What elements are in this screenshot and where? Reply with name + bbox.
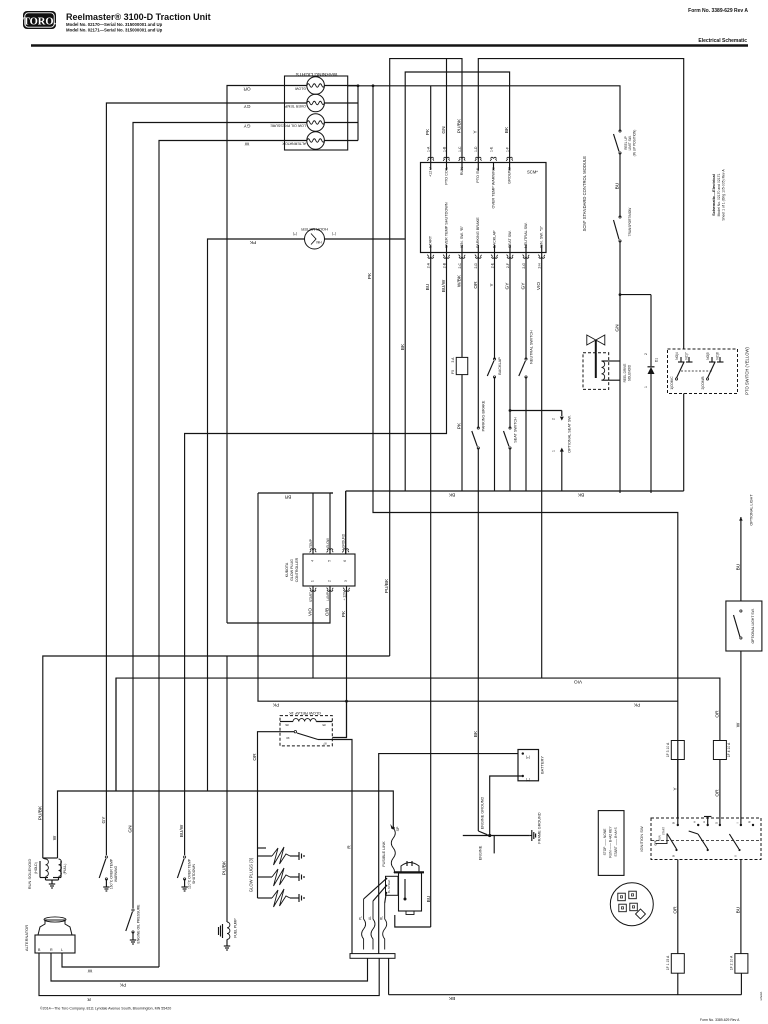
- header rule: [31, 44, 748, 47]
- wire BK bottom bus: [389, 994, 742, 996]
- svg-text:(IN UP POSITION): (IN UP POSITION): [633, 130, 637, 157]
- svg-text:GLOW PLUGS (3): GLOW PLUGS (3): [249, 857, 254, 892]
- svg-text:BATTERY: BATTERY: [540, 756, 545, 774]
- glow relay 1K: [280, 716, 332, 746]
- svg-text:87: 87: [323, 742, 327, 746]
- svg-text:PTO SWITCH (YELLOW): PTO SWITCH (YELLOW): [745, 347, 750, 395]
- svg-text:1-F: 1-F: [505, 147, 509, 152]
- svg-text:BK: BK: [448, 995, 455, 1001]
- svg-text:2: 2: [328, 580, 332, 582]
- battery: [518, 750, 539, 781]
- svg-text:Schematic—Electrical: Schematic—Electrical: [711, 174, 716, 216]
- svg-text:6: 6: [343, 560, 347, 562]
- svg-text:BU: BU: [426, 895, 432, 902]
- svg-text:GLOW: GLOW: [326, 538, 330, 548]
- svg-text:1: 1: [552, 450, 556, 452]
- wire top bus segment A y58.6: [390, 59, 462, 656]
- svg-text:(HOLD): (HOLD): [34, 862, 38, 874]
- battery junction bar: [350, 954, 395, 959]
- svg-text:OR: OR: [473, 281, 479, 289]
- svg-text:I: I: [735, 822, 739, 823]
- svg-text:86: 86: [285, 723, 289, 727]
- wire battery positive: [379, 754, 518, 954]
- svg-text:SHUTDOWN: SHUTDOWN: [192, 863, 196, 884]
- fuse 1F1 15A: [671, 954, 684, 974]
- svg-text:GY: GY: [243, 103, 251, 109]
- svg-text:PK: PK: [341, 610, 347, 617]
- svg-text:BACKLAP: BACKLAP: [498, 357, 502, 375]
- svg-text:FUSIBLE LINK: FUSIBLE LINK: [382, 841, 386, 867]
- wire ignition B to 1F1 OR: [677, 860, 679, 954]
- svg-text:ENGINE: ENGINE: [479, 845, 483, 860]
- SCM pin 1-E OVER TEMP WARNING: [490, 157, 497, 161]
- wire 2-G GY neutral switch: [525, 253, 527, 360]
- wire top bus segment B y58.6 to PTO: [478, 59, 683, 349]
- SCM pin 2-C IGN. SW. “B”: [459, 255, 466, 259]
- svg-text:BU: BU: [615, 182, 621, 189]
- svg-text:BK: BK: [473, 730, 479, 737]
- svg-text:A: A: [693, 821, 697, 823]
- svg-text:ALTERNATOR: ALTERNATOR: [282, 141, 306, 145]
- reel drive solenoid: [583, 353, 609, 390]
- wire 2-F GY seat switch: [509, 253, 511, 429]
- svg-text:30: 30: [286, 736, 290, 740]
- svg-text:2|COM/B: 2|COM/B: [701, 376, 705, 389]
- svg-text:2: 2: [552, 418, 556, 420]
- engine ground bar: [463, 835, 530, 837]
- fusible link RL: [383, 903, 387, 950]
- svg-text:(−): (−): [526, 778, 531, 782]
- fuse 1F4 10A: [713, 741, 726, 760]
- svg-text:PU/BK: PU/BK: [222, 860, 228, 875]
- lamp OVER TEMP: [307, 94, 325, 112]
- wire VIO riser x116: [115, 678, 117, 791]
- svg-text:3: 3: [344, 580, 348, 582]
- svg-text:(+): (+): [526, 756, 531, 760]
- svg-text:schem1: schem1: [759, 991, 763, 1001]
- wire glow relay feed from +12V line: [332, 701, 346, 737]
- fuse 1F2 10A: [735, 954, 748, 974]
- svg-text:NC|8: NC|8: [716, 352, 720, 359]
- optional seat switch arrows: [560, 411, 564, 421]
- svg-text:B: B: [672, 822, 676, 824]
- wire alternator B R: [39, 953, 379, 996]
- fuel pump: [226, 920, 228, 922]
- svg-text:TRANSPORT/MOW: TRANSPORT/MOW: [628, 208, 632, 237]
- svg-text:GY: GY: [521, 282, 527, 290]
- svg-text:PK: PK: [119, 982, 126, 988]
- wire PK accessory line y701: [257, 700, 677, 702]
- junction SP: [392, 827, 395, 830]
- svg-text:LAMP: LAMP: [326, 592, 330, 601]
- glow plug 1: [258, 855, 273, 857]
- svg-text:LIMIT SW.: LIMIT SW.: [628, 135, 632, 150]
- wire PU/BK run solenoid y656: [43, 656, 390, 858]
- svg-text:Reelmaster® 3100-D Traction Un: Reelmaster® 3100-D Traction Unit: [66, 12, 211, 22]
- svg-text:Model No. 02170—Serial No. 315: Model No. 02170—Serial No. 315000001 and…: [66, 22, 163, 27]
- connector plug circle: [610, 883, 653, 926]
- svg-text:1F 2 10 A: 1F 2 10 A: [730, 955, 734, 970]
- wire PU/BK fuel pump x227: [226, 656, 228, 920]
- svg-text:STOP —— NONE: STOP —— NONE: [603, 828, 607, 856]
- starter motor: [399, 873, 422, 911]
- svg-text:GY: GY: [101, 816, 107, 824]
- svg-text:B: B: [672, 855, 676, 857]
- wire D1 top tie: [620, 294, 651, 296]
- wire BU to starter S: [395, 915, 431, 927]
- ignition switch blades: [667, 834, 677, 850]
- svg-text:2-A: 2-A: [427, 262, 431, 268]
- svg-text:NO|5: NO|5: [706, 352, 710, 360]
- wire 2-B BU/W: [185, 253, 447, 856]
- SCM pin 2-H IGN. SW. “S”: [538, 255, 545, 259]
- svg-text:R: R: [87, 996, 91, 1002]
- svg-text:ENGINE OIL PRESSURE: ENGINE OIL PRESSURE: [137, 904, 141, 944]
- svg-text:Form No. 3389-629 Rev A: Form No. 3389-629 Rev A: [700, 1018, 740, 1022]
- svg-text:TORO.: TORO.: [23, 17, 57, 28]
- optional light switch: [726, 601, 762, 651]
- svg-text:IGN. SW. “B”: IGN. SW. “B”: [460, 225, 464, 248]
- wire 2-E Y backlap: [494, 253, 496, 360]
- glow plug 2: [258, 876, 273, 878]
- svg-text:GROUND: GROUND: [342, 533, 346, 548]
- svg-text:ENGINE GROUND: ENGINE GROUND: [481, 797, 485, 830]
- TORO logo: [23, 11, 56, 29]
- switch transport mow: [614, 216, 622, 242]
- optional light arrow: [739, 517, 743, 525]
- svg-text:F5: F5: [451, 370, 455, 374]
- svg-text:(PULL): (PULL): [63, 864, 67, 875]
- lamp GLOW: [307, 77, 325, 95]
- svg-text:NEUTRAL SW.: NEUTRAL SW.: [524, 222, 528, 248]
- warning lights box: [285, 76, 348, 150]
- svg-text:D1: D1: [655, 358, 659, 362]
- svg-text:OPTIONAL LIGHT SW.: OPTIONAL LIGHT SW.: [751, 608, 755, 643]
- svg-text:110°C OVER TEMP: 110°C OVER TEMP: [188, 858, 192, 889]
- svg-text:A: A: [702, 821, 706, 823]
- svg-text:SEAT SWITCH: SEAT SWITCH: [514, 417, 518, 443]
- wire W battery feed y791: [58, 791, 394, 858]
- svg-text:HOUR METER: HOUR METER: [301, 227, 328, 232]
- frame ground: [530, 830, 536, 841]
- svg-text:OVER TEMP WARNING: OVER TEMP WARNING: [491, 167, 495, 209]
- wire glow ground riser x346: [345, 491, 347, 554]
- wire optional seat spur: [510, 410, 562, 412]
- svg-text:NC|7: NC|7: [685, 352, 689, 359]
- switch 160C over temp warning: [99, 856, 107, 880]
- wire ground loop y72: [405, 72, 509, 491]
- svg-text:BU: BU: [735, 906, 741, 913]
- SCM pin 2-D PARKING BRAKE: [475, 255, 482, 259]
- svg-text:Model No. 02170 and 02171: Model No. 02170 and 02171: [717, 173, 721, 216]
- starter solenoid box: [386, 876, 399, 895]
- fusible link PL: [362, 899, 366, 950]
- wire BR glow temp y493: [258, 492, 333, 494]
- svg-text:W: W: [52, 835, 58, 840]
- fuse F5 3A on 2-C: [456, 357, 468, 374]
- wire bar to BK bus: [388, 958, 390, 994]
- svg-text:SOLENOID: SOLENOID: [628, 364, 632, 381]
- svg-text:W: W: [735, 722, 741, 727]
- svg-text:CONTROLLER: CONTROLLER: [295, 557, 299, 582]
- svg-text:X: X: [733, 855, 737, 857]
- svg-text:GY: GY: [505, 282, 511, 290]
- svg-text:PARKING BRAKE: PARKING BRAKE: [476, 217, 480, 248]
- glow controller pin 2 LAMP: [227, 586, 330, 623]
- svg-text:RUN —— B+A2 KEY: RUN —— B+A2 KEY: [609, 826, 613, 858]
- svg-text:Model No. 02171—Serial No. 315: Model No. 02171—Serial No. 315000001 and…: [66, 28, 163, 33]
- svg-text:2-B: 2-B: [442, 262, 446, 268]
- svg-text:R: R: [50, 948, 53, 952]
- wire optional light switch to ignition W: [740, 651, 742, 818]
- diode D1: [650, 295, 652, 366]
- svg-text:OVER TEMP: OVER TEMP: [284, 104, 306, 108]
- svg-text:OR: OR: [252, 753, 258, 761]
- svg-text:1-C: 1-C: [458, 146, 462, 152]
- svg-text:BR: BR: [284, 494, 291, 500]
- svg-text:1F 4 10 A: 1F 4 10 A: [727, 742, 731, 757]
- svg-text:RUN: RUN: [658, 835, 662, 841]
- wire SCM 1-A up: [430, 86, 432, 163]
- node junction lamps common: [357, 84, 360, 87]
- svg-text:NEUTRAL SWITCH: NEUTRAL SWITCH: [530, 330, 534, 364]
- wire PTO com to ground bus: [683, 394, 685, 492]
- ignition legend box: [598, 811, 624, 876]
- svg-text:OPTIONAL LIGHT: OPTIONAL LIGHT: [750, 494, 754, 526]
- SCM pin 1-F GROUND: [506, 157, 513, 161]
- wire glow relay output OR: [258, 732, 281, 848]
- svg-text:VIO: VIO: [574, 679, 583, 685]
- run solenoid ground: [45, 878, 47, 881]
- svg-text:START —— B+A+S: START —— B+A+S: [614, 827, 618, 857]
- reel drive solenoid valve symbol: [587, 335, 605, 345]
- svg-text:1F 3 10 A: 1F 3 10 A: [666, 742, 670, 757]
- kubota glow plug controller U2: [303, 554, 355, 586]
- svg-text:L: L: [61, 948, 63, 952]
- SCM standard control module U1: [421, 163, 547, 253]
- svg-text:GLOW RELAY 1K: GLOW RELAY 1K: [289, 711, 321, 716]
- svg-text:Form No. 3389-629 Rev A: Form No. 3389-629 Rev A: [688, 8, 748, 14]
- svg-text:1-B: 1-B: [442, 146, 446, 152]
- wire low oil lamp GY: [133, 123, 285, 909]
- svg-text:W: W: [87, 968, 92, 974]
- svg-text:2-G: 2-G: [522, 263, 526, 269]
- SCM pin 2-F SEAT SW.: [507, 255, 514, 259]
- svg-text:1: 1: [311, 580, 315, 582]
- wire 2-A BU to starter: [430, 253, 432, 928]
- wire hour meter minus: [325, 238, 405, 240]
- svg-text:GN: GN: [128, 825, 134, 833]
- wire ignition X to 1F2 BU: [740, 860, 742, 954]
- svg-text:BK: BK: [448, 492, 455, 498]
- svg-text:SCM*: SCM*: [527, 170, 538, 175]
- svg-text:IGN. SW. “S”: IGN. SW. “S”: [540, 225, 544, 248]
- svg-text:IGNITION SW: IGNITION SW: [639, 826, 644, 852]
- SCM pin 1-B PTO COIL: [443, 157, 450, 161]
- SCM pin 2-E BACKLAP: [491, 255, 498, 259]
- glow relay coil: [293, 719, 316, 722]
- wire hour meter plus PK: [208, 239, 305, 791]
- svg-text:OR: OR: [714, 789, 720, 797]
- switch parking brake: [472, 427, 480, 449]
- PTO switch yellow: [668, 349, 738, 394]
- svg-text:2: 2: [644, 353, 648, 355]
- svg-text:BK: BK: [400, 343, 406, 350]
- svg-text:WARNING: WARNING: [114, 866, 118, 883]
- SCM pin 1-A +12 V: [427, 157, 434, 161]
- svg-text:BU/W: BU/W: [441, 279, 447, 292]
- svg-text:LOW OIL PRESSURE: LOW OIL PRESSURE: [270, 123, 306, 127]
- glow plug 3: [258, 897, 273, 899]
- PTO mechanical link dashed: [681, 370, 712, 372]
- wire glow lamp OR: [227, 86, 285, 624]
- wire alternator lamp W: [159, 141, 285, 968]
- svg-text:BK: BK: [504, 126, 510, 133]
- svg-text:2-C: 2-C: [458, 262, 462, 268]
- svg-text:NO|4: NO|4: [675, 352, 679, 360]
- svg-text:VIO: VIO: [536, 282, 542, 291]
- svg-text:B+ M Start: B+ M Start: [387, 879, 391, 893]
- svg-text:AL: AL: [368, 916, 372, 920]
- svg-text:Y: Y: [473, 130, 479, 134]
- wire warning light feed y85.8: [348, 86, 620, 131]
- svg-text:GN: GN: [441, 126, 447, 134]
- wire BU between switches: [619, 153, 621, 217]
- svg-text:TEMP: TEMP: [309, 539, 313, 548]
- node junction hour meter PK: [372, 84, 375, 87]
- wire 2-D OR parking brake to engine ground: [477, 253, 479, 429]
- svg-text:OR: OR: [243, 85, 251, 91]
- ignition switch: [651, 818, 761, 860]
- SCM pin 1-C RUN: [459, 157, 466, 161]
- lamp ALTERNATOR: [307, 132, 325, 150]
- glow controller pin 6 GROUND: [345, 491, 347, 554]
- svg-text:R: R: [347, 845, 353, 849]
- fuse 1F3 10A: [671, 741, 684, 760]
- svg-text:PU/BK: PU/BK: [457, 118, 463, 133]
- wire 2-H VIO to ignition S line: [541, 253, 543, 679]
- svg-text:(−): (−): [332, 232, 337, 236]
- svg-text:OR: OR: [714, 710, 720, 718]
- svg-text:PK: PK: [272, 702, 279, 708]
- svg-text:FRAME GROUND: FRAME GROUND: [538, 812, 542, 843]
- switch seat: [504, 427, 512, 449]
- svg-text:SCM* STANDARD CONTROL MODULE: SCM* STANDARD CONTROL MODULE: [582, 156, 587, 232]
- glow controller pin 5 GLOW: [329, 493, 331, 554]
- svg-text:2-D: 2-D: [474, 262, 478, 268]
- svg-text:BU: BU: [425, 283, 431, 290]
- wire alternator R PK: [51, 953, 368, 981]
- svg-text:1F 1 15 A: 1F 1 15 A: [666, 955, 670, 970]
- svg-text:B: B: [38, 948, 41, 952]
- svg-text:PL: PL: [359, 916, 363, 920]
- svg-text:VIO: VIO: [308, 608, 314, 617]
- svg-text:85: 85: [322, 723, 326, 727]
- svg-text:BU/W: BU/W: [179, 824, 185, 837]
- svg-text:W/BK: W/BK: [457, 274, 463, 287]
- svg-text:S: S: [714, 822, 718, 824]
- wire lamps right common: [324, 85, 358, 87]
- svg-text:O/B: O/B: [325, 608, 331, 616]
- svg-text:1-E: 1-E: [489, 146, 493, 152]
- glow plug bus: [257, 848, 259, 898]
- svg-text:PU/BK: PU/BK: [37, 805, 43, 820]
- svg-text:R: R: [748, 820, 752, 823]
- svg-text:Electrical Schematic: Electrical Schematic: [698, 38, 747, 44]
- svg-text:2-H: 2-H: [538, 262, 542, 268]
- svg-text:START: START: [309, 592, 313, 602]
- fusible link main: [391, 828, 395, 873]
- wire BR PK riser x258: [257, 493, 259, 701]
- svg-text:PU/BK: PU/BK: [384, 578, 390, 593]
- wire GN to reel solenoid: [619, 241, 621, 493]
- svg-text:BU: BU: [735, 563, 741, 570]
- svg-text:FUEL PUMP: FUEL PUMP: [234, 918, 238, 938]
- svg-text:BK: BK: [577, 492, 584, 498]
- hour meter HM: [305, 229, 325, 249]
- wire VIO ignition S line y678: [116, 678, 720, 791]
- switch neutral: [519, 358, 527, 378]
- wire battery negative to engine ground: [490, 776, 523, 836]
- svg-text:1-D: 1-D: [474, 146, 478, 152]
- ignition switch divider: [651, 840, 761, 842]
- svg-text:3 A: 3 A: [451, 357, 455, 363]
- wire PK riser to key line: [373, 86, 678, 818]
- starter feed diagonals: [364, 879, 387, 899]
- wire SCM 1-B up: [446, 59, 448, 163]
- wire over temp lamp GY: [106, 103, 284, 855]
- switch backlap: [487, 358, 495, 378]
- svg-text:RUN SOLENOID: RUN SOLENOID: [27, 859, 32, 890]
- svg-text:©2014—The Toro Company, 8111 L: ©2014—The Toro Company, 8111 Lyndale Ave…: [40, 1007, 171, 1011]
- svg-text:1|COM/C: 1|COM/C: [670, 376, 674, 390]
- svg-text:W: W: [244, 140, 249, 146]
- svg-text:REEL DRIVE: REEL DRIVE: [623, 364, 627, 383]
- switch 110C over temp shutdown: [177, 856, 185, 880]
- svg-text:GY: GY: [243, 122, 251, 128]
- svg-text:PK: PK: [249, 239, 256, 245]
- svg-text:HM: HM: [316, 240, 321, 244]
- svg-text:OR: OR: [672, 906, 678, 914]
- svg-text:ALTERNATOR: ALTERNATOR: [24, 925, 29, 951]
- svg-text:GLOW: GLOW: [294, 86, 306, 90]
- svg-text:PARKING BRAKE: PARKING BRAKE: [482, 400, 486, 431]
- SCM pin 2-G NEUTRAL SW.: [523, 255, 530, 259]
- lamp LOW OIL PRESSURE: [307, 114, 325, 132]
- svg-text:2-F: 2-F: [506, 263, 510, 268]
- svg-text:4: 4: [311, 560, 315, 562]
- svg-text:(+): (+): [293, 232, 298, 236]
- svg-text:OPTIONAL SEAT SW.: OPTIONAL SEAT SW.: [568, 415, 572, 453]
- svg-text:RL: RL: [380, 916, 384, 920]
- svg-text:PK: PK: [425, 128, 431, 135]
- svg-text:START: START: [662, 826, 666, 835]
- glow relay contact: [294, 731, 296, 733]
- wire alternator L W: [62, 953, 159, 967]
- glow controller pin 3 +12V to glow relay: [346, 586, 348, 738]
- SCM pin 2-B OVER TEMP SHUTDOWN: [443, 255, 450, 259]
- wire glow relay to battery R: [332, 740, 352, 954]
- svg-text:160°C OVER TEMP: 160°C OVER TEMP: [110, 858, 114, 889]
- svg-text:KUBOTA: KUBOTA: [285, 562, 289, 577]
- switch engine oil pressure: [126, 909, 134, 933]
- svg-text:SP: SP: [396, 826, 400, 831]
- svg-text:GLOW PLUG: GLOW PLUG: [290, 559, 294, 581]
- svg-text:PK: PK: [367, 272, 373, 279]
- svg-text:1: 1: [644, 386, 648, 388]
- svg-text:1-A: 1-A: [427, 146, 431, 152]
- svg-text:GN: GN: [615, 324, 621, 332]
